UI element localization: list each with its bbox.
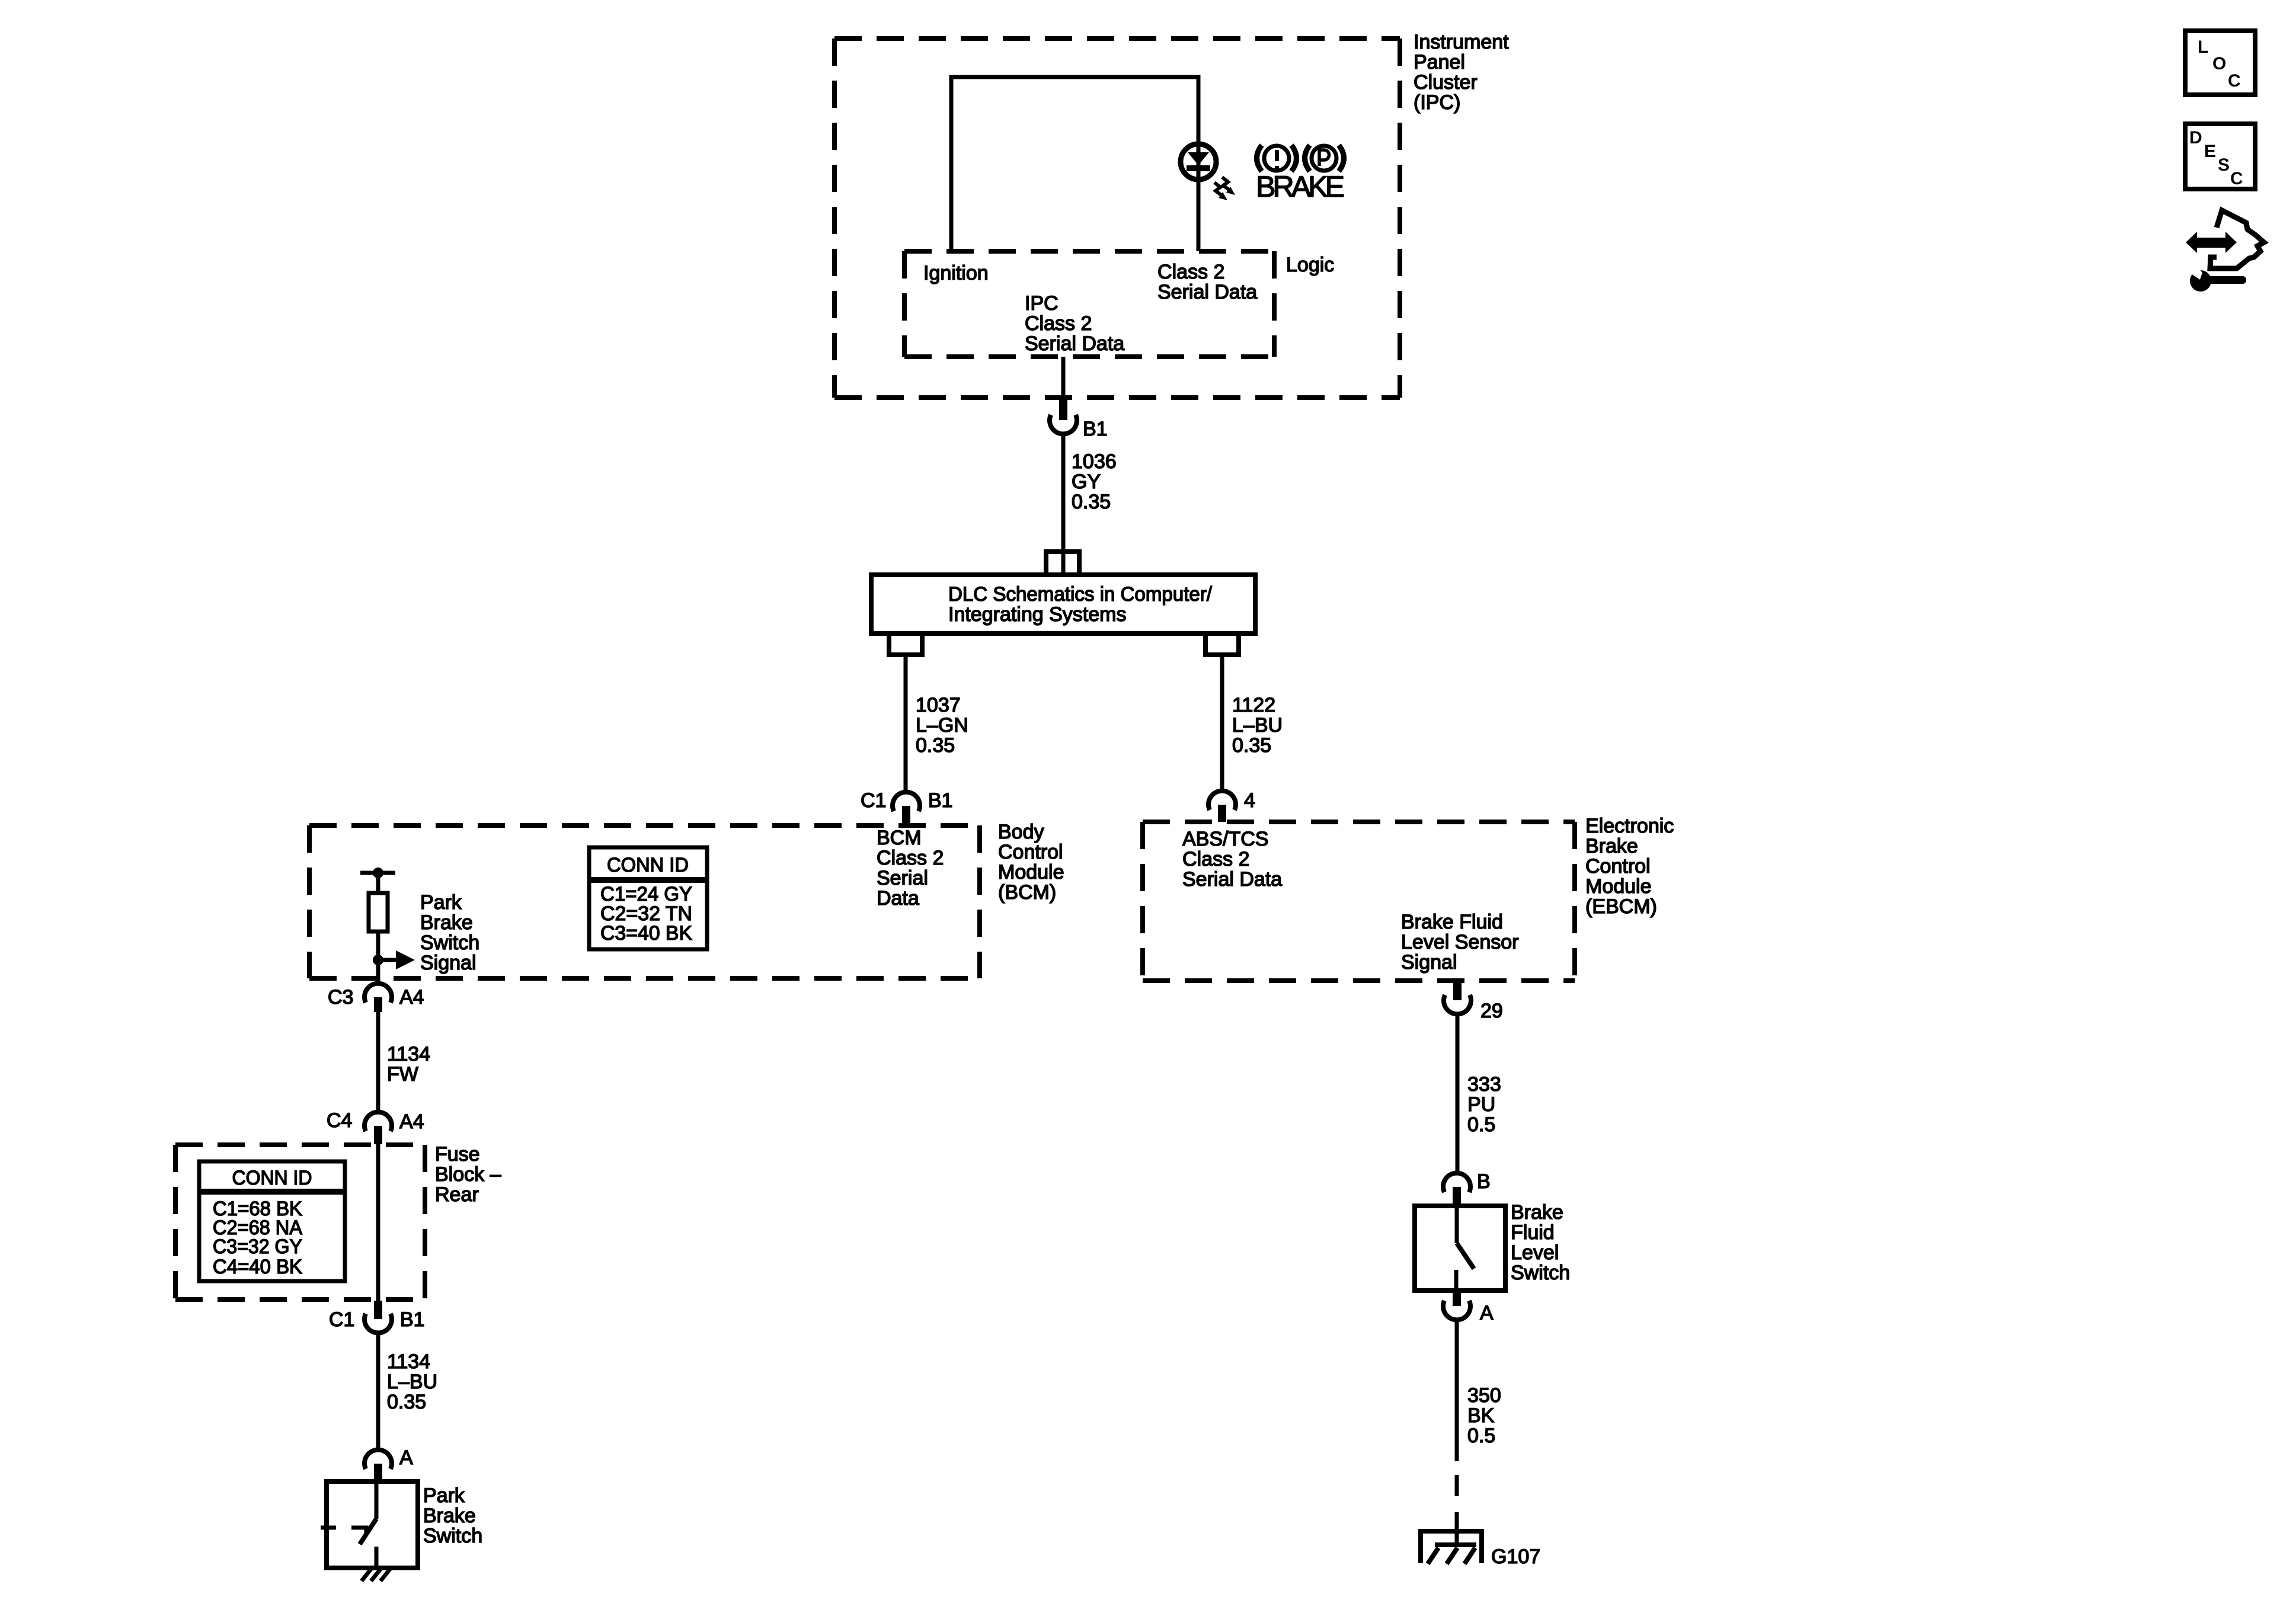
wire label 1134 L-BU 0.35 xyxy=(387,1350,437,1413)
terminal stub C3/A4 xyxy=(374,997,382,1012)
svg-text:DLC Schematics in Computer/: DLC Schematics in Computer/ xyxy=(948,583,1213,606)
wire ignition to indicator xyxy=(951,77,1198,251)
svg-text:Signal: Signal xyxy=(420,952,477,974)
svg-text:Class 2: Class 2 xyxy=(1157,261,1224,283)
svg-text:Brake: Brake xyxy=(1511,1201,1563,1224)
svg-text:1037: 1037 xyxy=(916,694,961,716)
svg-text:B1: B1 xyxy=(928,789,953,812)
fluid switch wire lower xyxy=(1454,1270,1459,1291)
svg-text:Serial Data: Serial Data xyxy=(1025,332,1124,355)
svg-text:Level Sensor: Level Sensor xyxy=(1401,931,1518,953)
svg-text:C4=40 BK: C4=40 BK xyxy=(213,1256,302,1278)
wire 333 xyxy=(1456,1014,1460,1173)
svg-text:C1: C1 xyxy=(329,1308,354,1331)
svg-text:FW: FW xyxy=(387,1063,418,1086)
terminal stub B1 xyxy=(1059,398,1067,420)
junction dot signal tap xyxy=(373,955,383,965)
svg-text:BRAKE: BRAKE xyxy=(1256,170,1345,203)
wire 1122 xyxy=(1220,656,1224,793)
svg-text:B: B xyxy=(1477,1170,1491,1193)
wire 1037 xyxy=(904,656,908,794)
connector C3/A4 arc xyxy=(364,984,392,1003)
inline connector staple bottom left of DLC xyxy=(889,633,922,655)
connector C1/B1 arc at BCM xyxy=(893,792,920,811)
icon compare double arrow xyxy=(2186,232,2237,253)
connector A arc fluid xyxy=(1443,1301,1470,1320)
svg-text:Block –: Block – xyxy=(435,1163,501,1186)
icon LOC box xyxy=(2185,31,2255,95)
svg-text:L: L xyxy=(2198,37,2208,57)
svg-text:0.35: 0.35 xyxy=(387,1391,426,1413)
svg-text:C4: C4 xyxy=(327,1109,352,1132)
svg-text:0.5: 0.5 xyxy=(1467,1113,1495,1136)
junction dot top of resistor xyxy=(373,868,383,878)
svg-text:Serial Data: Serial Data xyxy=(1157,281,1257,303)
label DLC Schematics xyxy=(948,583,1213,626)
LED cathode bar xyxy=(1187,165,1210,171)
svg-text:350: 350 xyxy=(1467,1384,1501,1407)
connector 4 arc at EBCM xyxy=(1208,791,1236,810)
svg-text:Brake: Brake xyxy=(423,1505,476,1527)
svg-text:Module: Module xyxy=(1585,875,1652,898)
svg-text:Brake: Brake xyxy=(1585,835,1638,857)
svg-text:Fluid: Fluid xyxy=(1511,1221,1555,1244)
CONN ID table BCM xyxy=(589,847,707,949)
svg-text:E: E xyxy=(2204,142,2216,161)
svg-text:C1: C1 xyxy=(861,789,886,812)
svg-text:Signal: Signal xyxy=(1401,951,1457,974)
svg-text:BK: BK xyxy=(1467,1404,1495,1427)
svg-text:0.35: 0.35 xyxy=(916,734,955,757)
label Brake Fluid Level Switch xyxy=(1511,1201,1570,1284)
fluid switch wire upper xyxy=(1455,1206,1459,1243)
inline connector staple bottom right of DLC xyxy=(1205,633,1239,655)
component box Brake Fluid Level Switch xyxy=(1415,1206,1505,1291)
inline connector staple top of DLC xyxy=(1046,552,1079,575)
svg-text:1122: 1122 xyxy=(1232,694,1275,716)
signal arrow xyxy=(378,950,415,969)
svg-text:333: 333 xyxy=(1467,1073,1501,1096)
module box BCM xyxy=(309,825,980,978)
svg-text:Park: Park xyxy=(423,1484,465,1507)
switch blade xyxy=(360,1519,376,1544)
svg-text:(EBCM): (EBCM) xyxy=(1585,895,1657,918)
svg-text:29: 29 xyxy=(1480,1000,1503,1022)
svg-text:BCM: BCM xyxy=(877,827,922,849)
icon DESC box xyxy=(2185,124,2255,189)
svg-text:Control: Control xyxy=(1585,855,1651,878)
wire dashed segment xyxy=(1455,1475,1459,1496)
svg-text:Serial Data: Serial Data xyxy=(1182,868,1282,891)
svg-text:L–BU: L–BU xyxy=(387,1371,437,1393)
label Park Brake Switch Signal xyxy=(420,891,479,974)
svg-text:A: A xyxy=(399,1446,413,1469)
svg-text:1036: 1036 xyxy=(1072,450,1117,473)
wire through fuse block xyxy=(376,1144,380,1301)
svg-text:1134: 1134 xyxy=(387,1350,430,1373)
terminal stub C1/B1 fuse xyxy=(374,1301,382,1319)
svg-text:Integrating Systems: Integrating Systems xyxy=(948,603,1126,626)
svg-text:B1: B1 xyxy=(400,1308,425,1331)
svg-text:Switch: Switch xyxy=(420,932,479,954)
connector 29 arc xyxy=(1444,995,1471,1014)
park brake icon (P) xyxy=(1305,145,1344,171)
wire 1036 xyxy=(1061,434,1066,575)
svg-text:G107: G107 xyxy=(1491,1545,1540,1568)
svg-text:C: C xyxy=(2230,169,2243,188)
connector C1/B1 arc below fuse xyxy=(364,1314,392,1333)
svg-text:1134: 1134 xyxy=(387,1043,430,1065)
svg-text:CONN ID: CONN ID xyxy=(607,854,689,876)
svg-text:0.5: 0.5 xyxy=(1467,1425,1495,1447)
label IPC Class 2 Serial Data xyxy=(1025,292,1124,355)
switch fixed contact xyxy=(351,1528,366,1535)
wire resistor to C3 xyxy=(376,932,380,984)
svg-text:Park: Park xyxy=(420,891,462,914)
icon compare outline xyxy=(2210,210,2264,268)
wire label 1036 GY 0.35 xyxy=(1072,450,1117,513)
svg-text:Data: Data xyxy=(877,887,919,910)
logic box xyxy=(904,251,1274,357)
svg-text:Body: Body xyxy=(998,821,1044,843)
svg-text:(IPC): (IPC) xyxy=(1414,91,1460,114)
svg-text:Fuse: Fuse xyxy=(435,1143,480,1166)
module box EBCM xyxy=(1143,822,1575,981)
connector A arc park brake xyxy=(364,1450,392,1469)
svg-text:Brake Fluid: Brake Fluid xyxy=(1401,911,1503,933)
svg-text:Electronic: Electronic xyxy=(1585,815,1674,837)
label ABS/TCS Class 2 Serial Data xyxy=(1182,828,1282,891)
connector B1 arc xyxy=(1050,415,1077,434)
svg-text:Brake: Brake xyxy=(420,911,473,934)
wire stub horizontal xyxy=(360,871,395,875)
svg-text:L–BU: L–BU xyxy=(1232,714,1283,737)
wire to ground xyxy=(1455,1512,1459,1547)
svg-text:0.35: 0.35 xyxy=(1232,734,1271,757)
svg-text:Cluster: Cluster xyxy=(1414,71,1478,94)
wire label 333 PU 0.5 xyxy=(1467,1073,1501,1136)
LED light rays xyxy=(1214,177,1235,200)
wire label 1037 L-GN 0.35 xyxy=(916,694,968,757)
brake warning icon (!) xyxy=(1257,145,1297,171)
junction block DLC Schematics xyxy=(871,575,1255,633)
svg-text:C3: C3 xyxy=(328,986,353,1009)
svg-text:Control: Control xyxy=(998,841,1063,863)
svg-text:Switch: Switch xyxy=(423,1525,482,1547)
terminal stub 29 xyxy=(1453,981,1462,1000)
svg-text:GY: GY xyxy=(1072,470,1101,493)
svg-text:4: 4 xyxy=(1244,789,1255,812)
terminal stub C1/B1 xyxy=(902,806,910,824)
label BCM Class 2 Serial Data xyxy=(877,827,944,910)
svg-text:(BCM): (BCM) xyxy=(998,881,1056,904)
svg-text:Rear: Rear xyxy=(435,1183,479,1206)
svg-text:A4: A4 xyxy=(399,986,424,1009)
svg-text:PU: PU xyxy=(1467,1093,1495,1116)
wire 1134 FW xyxy=(376,1012,380,1113)
switch wire upper xyxy=(375,1481,379,1519)
module box Fuse Block Rear xyxy=(175,1145,425,1299)
svg-text:B1: B1 xyxy=(1083,418,1108,440)
svg-text:Ignition: Ignition xyxy=(923,262,989,284)
label Body Control Module (BCM) xyxy=(998,821,1064,904)
wire label 1134 FW xyxy=(387,1043,430,1086)
switch wire lower xyxy=(375,1547,379,1568)
wire 350 xyxy=(1455,1320,1459,1461)
svg-text:O: O xyxy=(2212,54,2226,73)
component box Park Brake Switch xyxy=(327,1481,418,1568)
connector C4/A4 arc xyxy=(364,1112,392,1131)
svg-text:D: D xyxy=(2189,128,2202,148)
svg-text:Instrument: Instrument xyxy=(1414,31,1509,53)
wire logic to B1 xyxy=(1061,357,1066,398)
terminal stub C4/A4 xyxy=(374,1126,382,1144)
svg-text:CONN ID: CONN ID xyxy=(232,1167,312,1189)
wire label 350 BK 0.5 xyxy=(1467,1384,1501,1447)
module box Instrument Panel Cluster (IPC) xyxy=(834,39,1400,398)
ground G107 hatch xyxy=(1428,1545,1476,1564)
ground G107 bracket xyxy=(1421,1531,1482,1563)
LED diode triangle xyxy=(1188,152,1209,165)
wire dot to resistor xyxy=(376,873,380,893)
label Class 2 Serial Data xyxy=(1157,261,1257,303)
svg-text:Level: Level xyxy=(1511,1241,1559,1264)
terminal stub A fluid xyxy=(1453,1291,1461,1306)
svg-text:C: C xyxy=(2228,71,2241,91)
connector B arc xyxy=(1443,1173,1470,1192)
svg-text:C3=40 BK: C3=40 BK xyxy=(600,922,692,945)
label Brake Fluid Level Sensor Signal xyxy=(1401,911,1518,974)
label Instrument Panel Cluster (IPC) xyxy=(1414,31,1509,114)
svg-text:IPC: IPC xyxy=(1025,292,1059,315)
svg-text:A4: A4 xyxy=(399,1110,424,1133)
svg-text:C3=32 GY: C3=32 GY xyxy=(213,1235,302,1258)
resistor park brake pull-up xyxy=(369,893,388,932)
svg-text:S: S xyxy=(2218,155,2230,175)
svg-text:Switch: Switch xyxy=(1511,1262,1570,1284)
label Park Brake Switch xyxy=(423,1484,482,1547)
terminal stub 4 xyxy=(1218,805,1226,822)
svg-text:Panel: Panel xyxy=(1414,51,1465,73)
svg-text:ABS/TCS: ABS/TCS xyxy=(1182,828,1268,850)
switch tick left wall xyxy=(321,1526,336,1530)
label Fuse Block Rear xyxy=(435,1143,501,1206)
svg-text:A: A xyxy=(1480,1302,1494,1324)
wire 1134 L-BU xyxy=(376,1333,380,1450)
svg-text:Class 2: Class 2 xyxy=(1025,312,1092,335)
label Electronic Brake Control Module (EBCM) xyxy=(1585,815,1674,918)
svg-text:Class 2: Class 2 xyxy=(877,847,944,869)
terminal stub A xyxy=(374,1464,382,1481)
svg-text:Class 2: Class 2 xyxy=(1182,848,1249,870)
terminal stub B xyxy=(1453,1187,1461,1206)
svg-text:0.35: 0.35 xyxy=(1072,491,1111,513)
indicator lamp wire xyxy=(1197,143,1201,251)
svg-text:Module: Module xyxy=(998,861,1064,884)
chassis ground hatching xyxy=(362,1569,390,1581)
svg-text:Serial: Serial xyxy=(877,867,928,889)
indicator LED circle xyxy=(1181,144,1216,180)
icon wrench xyxy=(2186,263,2246,292)
svg-text:L–GN: L–GN xyxy=(916,714,968,737)
CONN ID table fuse block xyxy=(199,1161,345,1281)
fluid switch blade xyxy=(1457,1243,1474,1269)
wire label 1122 L-BU 0.35 xyxy=(1232,694,1283,757)
svg-text:Logic: Logic xyxy=(1286,254,1334,276)
